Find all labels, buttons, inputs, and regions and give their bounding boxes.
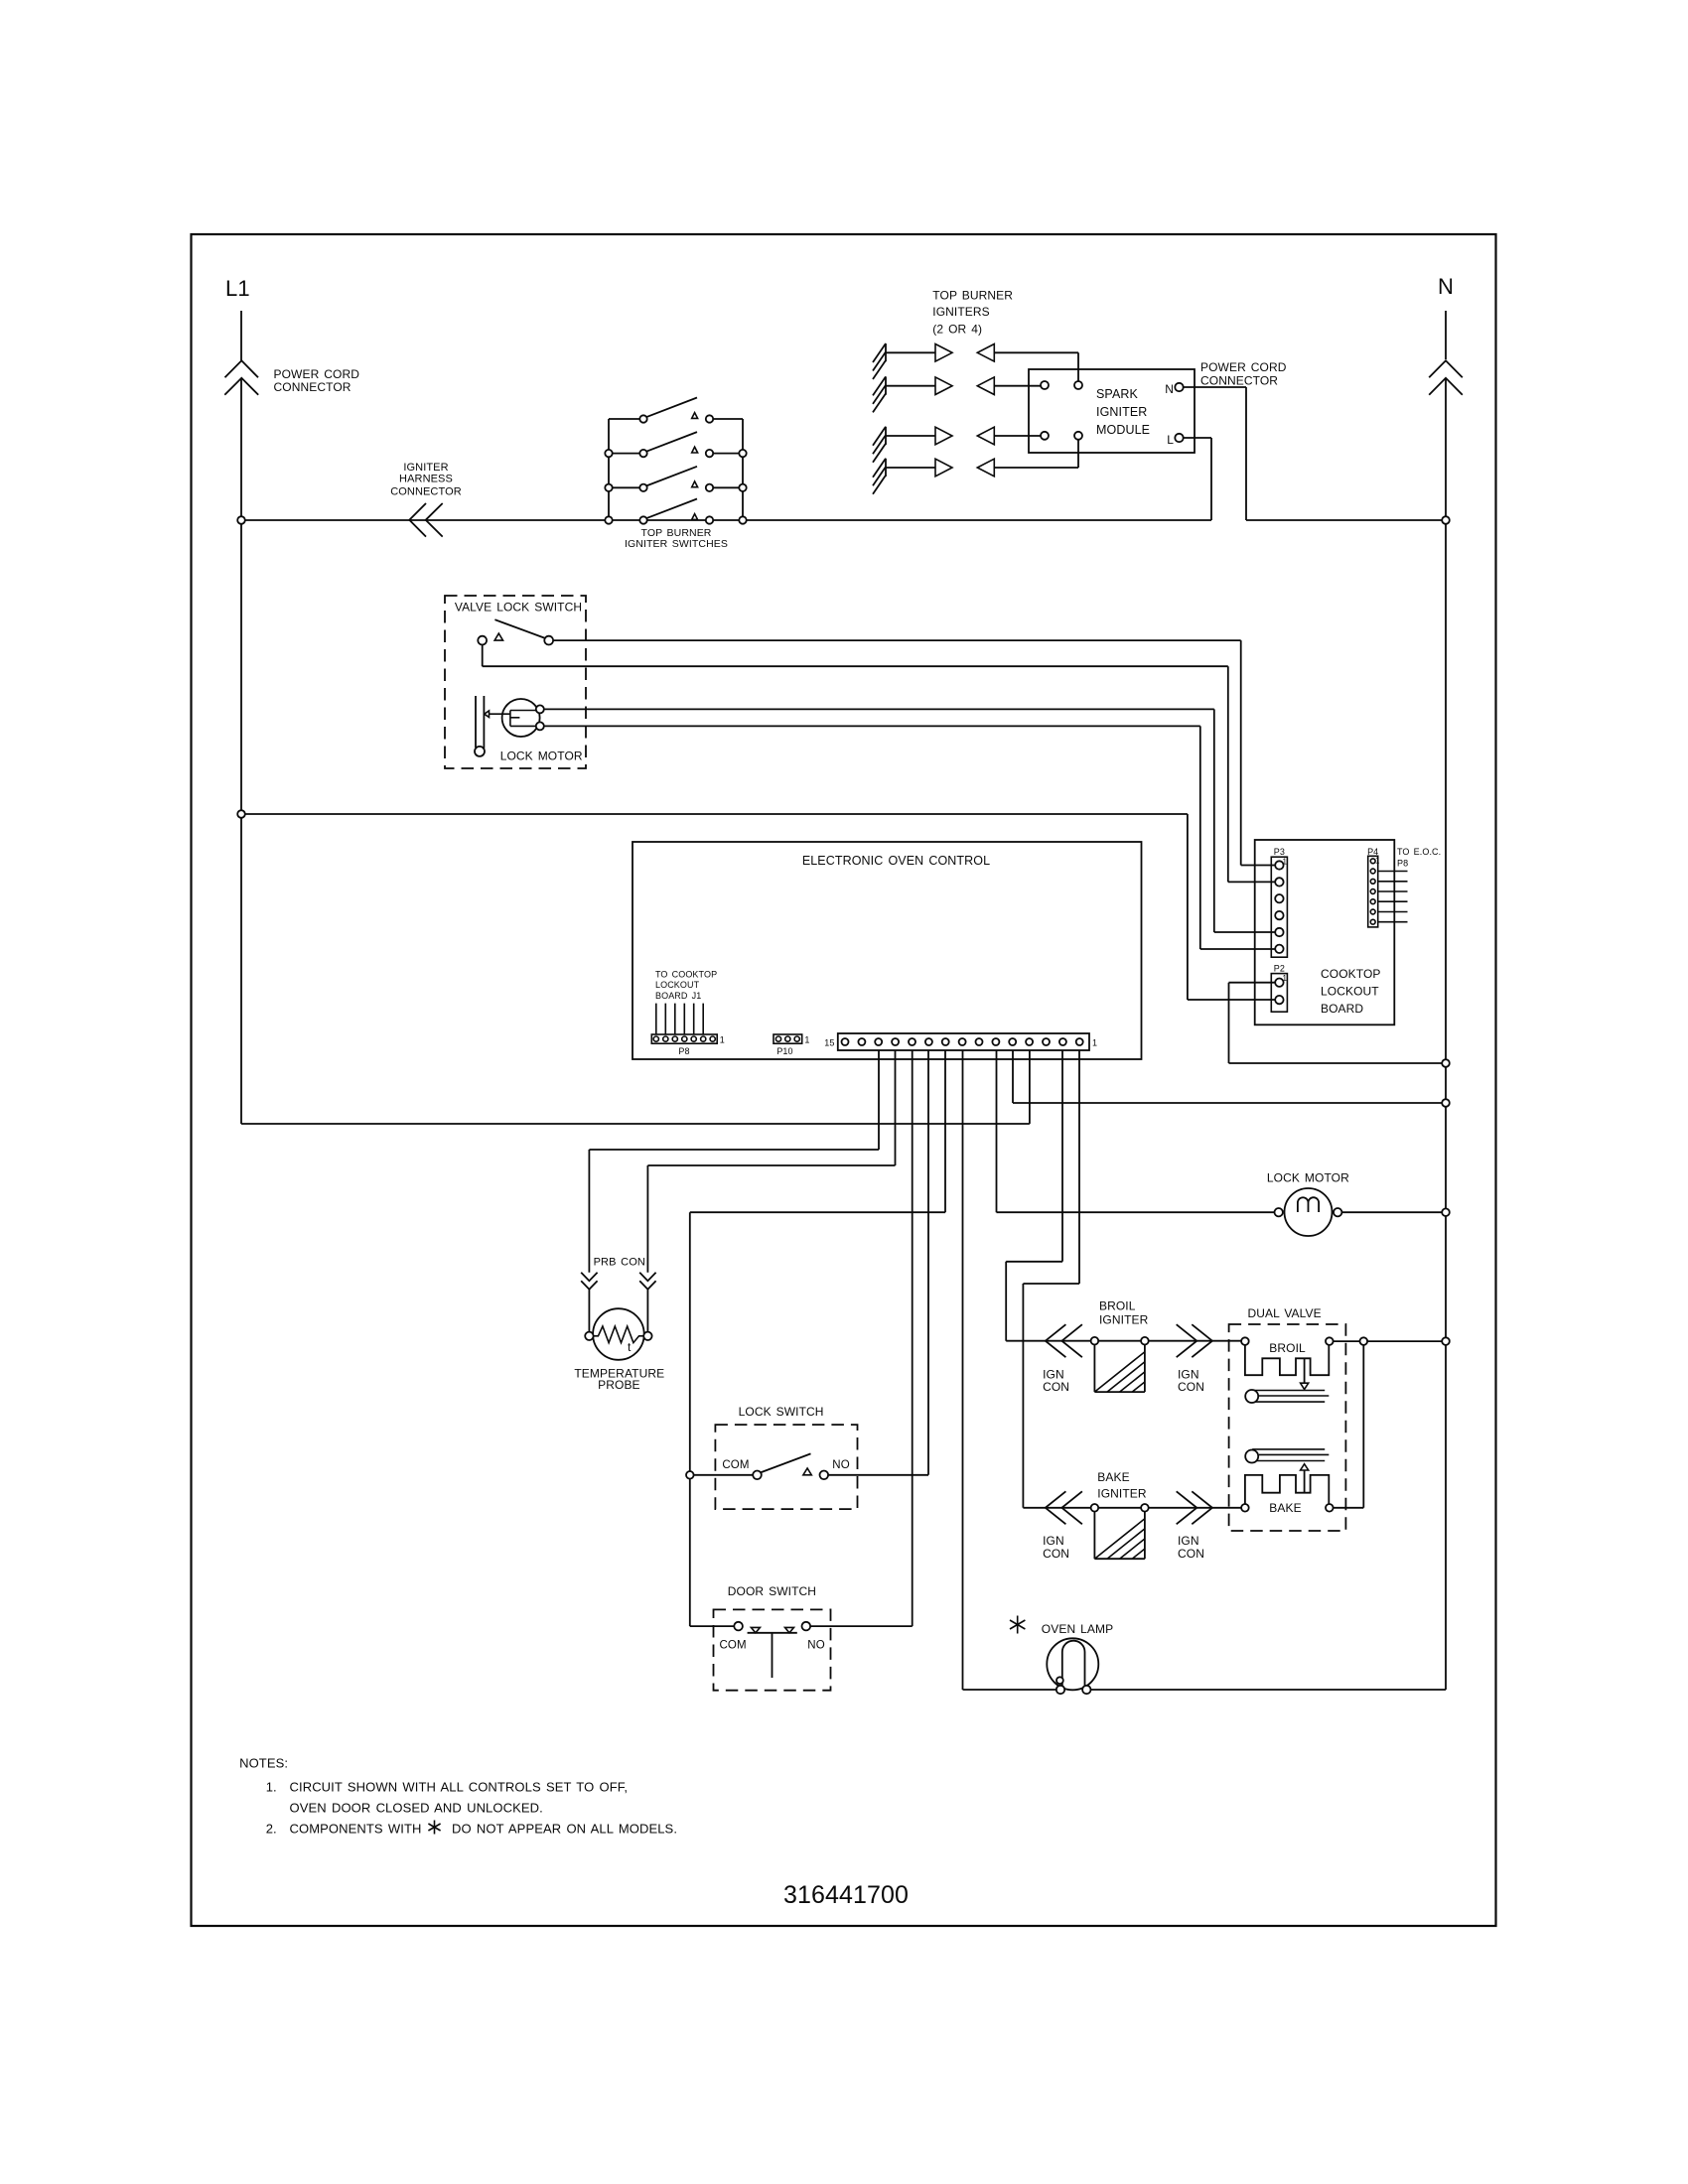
svg-text:N: N	[1438, 274, 1454, 299]
svg-text:DO NOT APPEAR ON ALL MODELS.: DO NOT APPEAR ON ALL MODELS.	[452, 1822, 677, 1837]
svg-text:COOKTOP: COOKTOP	[1321, 967, 1381, 981]
svg-text:PROBE: PROBE	[598, 1378, 640, 1392]
svg-text:CIRCUIT SHOWN WITH ALL CONTROL: CIRCUIT SHOWN WITH ALL CONTROLS SET TO O…	[290, 1780, 629, 1795]
svg-text:CONNECTOR: CONNECTOR	[1200, 374, 1278, 388]
svg-text:OVEN LAMP: OVEN LAMP	[1042, 1622, 1113, 1636]
svg-text:15: 15	[824, 1038, 834, 1048]
svg-text:ELECTRONIC OVEN CONTROL: ELECTRONIC OVEN CONTROL	[802, 854, 990, 868]
svg-text:BOARD: BOARD	[1321, 1002, 1363, 1016]
svg-text:NOTES:: NOTES:	[239, 1756, 288, 1771]
svg-text:TOP BURNER: TOP BURNER	[932, 289, 1013, 303]
svg-text:MODULE: MODULE	[1096, 423, 1150, 437]
svg-text:(2 OR 4): (2 OR 4)	[932, 323, 982, 337]
svg-text:LOCK MOTOR: LOCK MOTOR	[1267, 1170, 1349, 1184]
svg-text:BROIL: BROIL	[1269, 1341, 1306, 1355]
svg-text:BROIL: BROIL	[1099, 1299, 1136, 1313]
svg-text:316441700: 316441700	[783, 1881, 909, 1909]
svg-text:2.: 2.	[266, 1822, 277, 1837]
svg-text:OVEN DOOR CLOSED AND UNLOCKED.: OVEN DOOR CLOSED AND UNLOCKED.	[290, 1801, 543, 1816]
svg-text:IGNITER SWITCHES: IGNITER SWITCHES	[625, 538, 728, 550]
svg-text:1: 1	[720, 1035, 725, 1045]
svg-text:PRB CON: PRB CON	[594, 1257, 645, 1269]
svg-text:P8: P8	[678, 1046, 689, 1056]
svg-text:P10: P10	[776, 1046, 792, 1056]
svg-text:BAKE: BAKE	[1097, 1470, 1129, 1484]
svg-text:CON: CON	[1043, 1380, 1069, 1394]
svg-text:1: 1	[1375, 857, 1380, 866]
svg-text:N: N	[1165, 382, 1174, 396]
svg-text:IGNITER: IGNITER	[1096, 405, 1147, 419]
svg-text:POWER CORD: POWER CORD	[1200, 360, 1287, 374]
svg-text:HARNESS: HARNESS	[399, 473, 453, 484]
svg-text:t: t	[628, 1340, 632, 1354]
svg-text:CON: CON	[1178, 1380, 1204, 1394]
svg-text:IGNITER: IGNITER	[1099, 1312, 1149, 1326]
svg-text:1.: 1.	[266, 1780, 277, 1795]
svg-text:LOCK MOTOR: LOCK MOTOR	[500, 750, 583, 763]
svg-text:SPARK: SPARK	[1096, 387, 1139, 401]
svg-text:BAKE: BAKE	[1269, 1501, 1301, 1515]
svg-text:P8: P8	[1397, 859, 1408, 869]
svg-text:CON: CON	[1043, 1547, 1069, 1561]
svg-text:POWER CORD: POWER CORD	[274, 367, 360, 381]
svg-text:COM: COM	[722, 1459, 749, 1471]
svg-text:TO E.O.C.: TO E.O.C.	[1397, 847, 1441, 857]
svg-text:NO: NO	[832, 1459, 849, 1471]
svg-text:IGNITER: IGNITER	[1097, 1487, 1147, 1501]
svg-text:DOOR SWITCH: DOOR SWITCH	[728, 1584, 816, 1598]
svg-text:P4: P4	[1367, 847, 1378, 857]
svg-text:P2: P2	[1274, 964, 1285, 974]
svg-text:TO COOKTOP: TO COOKTOP	[655, 970, 717, 980]
svg-text:DUAL VALVE: DUAL VALVE	[1247, 1306, 1321, 1320]
svg-text:VALVE LOCK SWITCH: VALVE LOCK SWITCH	[455, 601, 582, 614]
svg-text:1: 1	[804, 1035, 809, 1045]
svg-text:1: 1	[1283, 974, 1288, 983]
svg-text:COMPONENTS WITH: COMPONENTS WITH	[290, 1822, 422, 1837]
svg-text:CONNECTOR: CONNECTOR	[274, 380, 352, 394]
svg-text:NO: NO	[807, 1640, 824, 1652]
svg-text:LOCKOUT: LOCKOUT	[655, 980, 700, 990]
svg-text:CONNECTOR: CONNECTOR	[390, 485, 462, 497]
svg-text:L: L	[1167, 433, 1174, 447]
svg-text:LOCKOUT: LOCKOUT	[1321, 985, 1379, 999]
svg-text:BOARD J1: BOARD J1	[655, 991, 701, 1001]
svg-text:L1: L1	[225, 276, 250, 301]
svg-text:CON: CON	[1178, 1547, 1204, 1561]
svg-text:P3: P3	[1274, 847, 1285, 857]
svg-text:COM: COM	[720, 1640, 747, 1652]
svg-text:LOCK SWITCH: LOCK SWITCH	[739, 1405, 824, 1419]
svg-text:1: 1	[1283, 858, 1288, 867]
svg-text:IGNITER: IGNITER	[403, 462, 448, 474]
svg-text:1: 1	[1092, 1038, 1097, 1048]
svg-text:IGNITERS: IGNITERS	[932, 305, 989, 319]
